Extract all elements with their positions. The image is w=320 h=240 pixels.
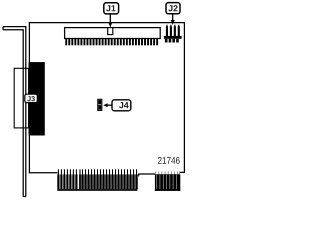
connector J1 key notch: [108, 28, 113, 35]
jumper J4 block: [98, 99, 102, 110]
edge connector bottom bar segment B: [155, 189, 180, 191]
arrowhead J2: [171, 20, 175, 25]
label J2 text: [168, 5, 177, 11]
jumper J4 pin 2: [98, 105, 101, 110]
card outline: [29, 23, 184, 174]
connector J2 legs: [165, 39, 179, 43]
label J3 text: [27, 96, 35, 101]
edge connector fingers lower segment A: [57, 174, 137, 189]
arrowhead J1: [108, 22, 112, 27]
label J4 box: [112, 100, 131, 111]
label J4 text: [119, 102, 129, 108]
edge connector fingers upper segment A: [58, 169, 137, 174]
connector J2 base: [164, 36, 182, 39]
pointer line J1: [109, 14, 111, 23]
label J1 text: [106, 5, 115, 11]
connector J1 body: [65, 28, 161, 39]
pointer line J4: [107, 104, 112, 106]
notch left stub: [138, 174, 140, 176]
edge connector fingers upper segment B: [155, 171, 180, 174]
jumper J4 pin 1: [98, 100, 101, 104]
card bottom edge at connector notch: [138, 173, 155, 175]
card bottom edge left segment: [29, 172, 58, 174]
label J3 box: [25, 94, 38, 102]
connector J2 pins: [166, 26, 180, 36]
connector J1 pins: [65, 39, 158, 45]
connector J2 pin nubs: [166, 25, 179, 27]
edge connector fingers lower segment B: [155, 174, 180, 191]
arrowhead J4: [103, 103, 107, 107]
label J1 box: [104, 3, 119, 14]
connector J3 (black block on left edge): [29, 62, 45, 135]
label J2 box: [166, 3, 180, 14]
mounting bracket: [3, 27, 26, 197]
part number 21746: [158, 157, 180, 164]
bracket connector opening: [14, 68, 28, 128]
card bottom edge right segment: [180, 171, 185, 173]
edge connector bottom bar segment A: [57, 189, 137, 191]
pointer line J2: [172, 14, 174, 21]
